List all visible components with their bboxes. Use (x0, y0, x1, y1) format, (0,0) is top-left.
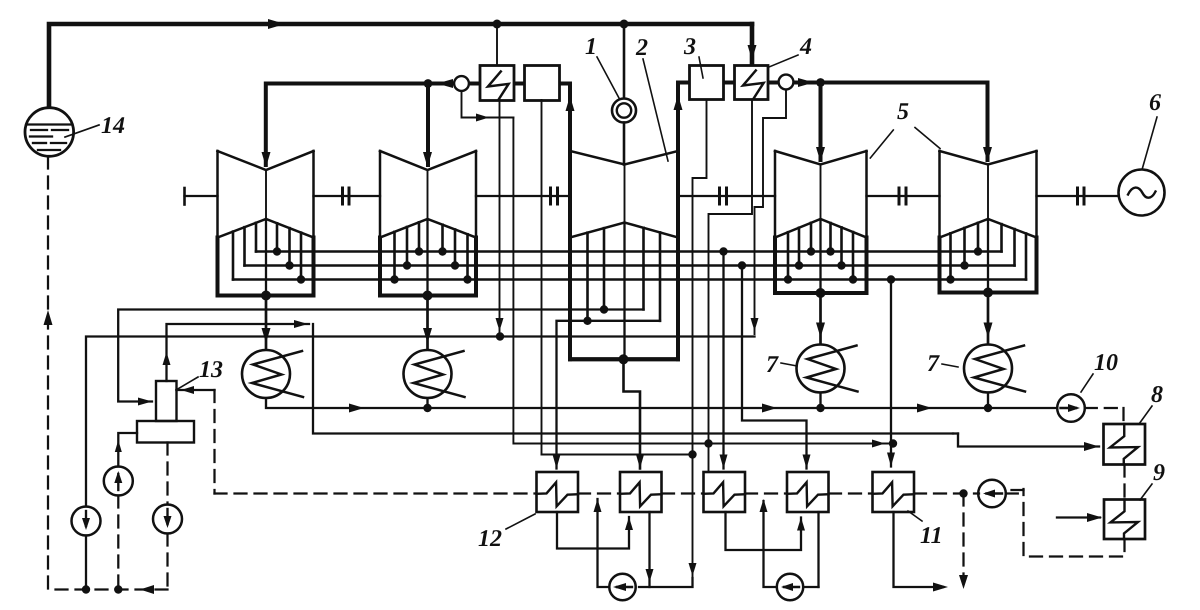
node tap header3 to heater 11 (887, 275, 895, 283)
condenser of T2 (404, 350, 452, 398)
wire reheater 4R drain (709, 100, 753, 473)
node main steam branch to throttle 1 (620, 20, 629, 29)
wire condensate into 13 from pump (118, 433, 137, 467)
ejector unit 13 lower vessel (137, 421, 194, 443)
ejector unit 13 upper vessel (156, 381, 177, 421)
wire T5 center exhaust to hood (987, 219, 989, 293)
label 2 leader (643, 59, 668, 161)
condensate pump (up) under 13 (104, 467, 133, 496)
wire T2 extraction drops with nodes (393, 232, 396, 280)
drain pump (left) of heaters 12 (609, 574, 635, 600)
wire heater 11 drain out (894, 512, 944, 587)
turbine T2 (LPC) outline (379, 151, 382, 238)
svg-text:8: 8 (1151, 382, 1163, 408)
wire T4 condenser drain (819, 393, 821, 409)
reheater 4L (square with zigzag) (480, 66, 514, 101)
svg-text:7: 7 (766, 352, 779, 378)
label 6 leader (1143, 117, 1158, 168)
svg-text:7: 7 (927, 351, 940, 377)
arrow on main steam line (268, 19, 285, 29)
wire steam into heater 9 (1057, 516, 1100, 518)
wire dashed suction of condensate pump (117, 496, 119, 590)
wire main steam into throttle valve 1 (623, 24, 626, 99)
svg-text:2: 2 (635, 35, 648, 61)
reheater 4L zigzag (488, 72, 509, 100)
wire dashed drain from 13 down (166, 443, 168, 505)
svg-text:6: 6 (1149, 90, 1161, 116)
wire line C (pot drains to heater 12-3) (513, 118, 889, 444)
condenser 7 of T5 (964, 345, 1012, 393)
node reheat line junction above T2 (424, 79, 433, 88)
coupling T2-T3 (549, 188, 552, 204)
wire turbine shaft (185, 195, 218, 197)
separator 3R (square) (690, 66, 724, 100)
heater 12-1 (LP heater) (537, 472, 579, 512)
turbine T1 (LPC) center line (265, 170, 267, 219)
wire drain pump 12 discharge into feed line (598, 499, 610, 587)
separator 3L (square) (525, 66, 560, 101)
moisture separator drain pot (small circle) left (454, 76, 469, 91)
turbine T4 (LPC, item 5) center line (820, 165, 822, 220)
wire extraction header 1 (256, 250, 1002, 253)
wire heater 12-1 drain cascade to 12-2 (557, 512, 629, 549)
label 7 leader (T5) (942, 364, 958, 367)
wire separator 3R drain (693, 100, 707, 581)
wire dashed from pump 10 to heater 8 (1085, 407, 1124, 409)
node T2 hood center (423, 291, 433, 301)
heater 9 (surface heater) (1104, 500, 1145, 540)
node T5 hood center (983, 288, 993, 298)
tank 14 water hatching (31, 129, 47, 131)
node main steam branch to reheater 4L (493, 20, 502, 29)
node reheater 4L drain on line B (496, 332, 504, 340)
wire dashed return riser to tank 14 (47, 157, 49, 590)
wire heater 12-3 drain cascade to 12-4 (726, 512, 802, 550)
wire T4 exhaust to condenser (819, 293, 822, 345)
pump of line B (down) (72, 507, 101, 536)
label 13 leader (176, 377, 198, 390)
wire dashed feedwater to 13 (177, 389, 215, 391)
wire dashed from heater 9 bottom to feed pump (1024, 489, 1125, 557)
wire hot reheat line right (to LPC turbines 5) (678, 83, 988, 161)
turbine T2 (LPC) exhaust hood (380, 238, 476, 296)
generator 6 sine symbol (1128, 188, 1156, 198)
moisture separator drain pot (small circle) right (779, 75, 794, 90)
label 12 leader (506, 514, 535, 529)
wire extraction header 2 (245, 264, 1015, 267)
node reheater 4R drain joins heater feed line (704, 439, 712, 447)
wire drain of separator pot 4R (755, 90, 787, 335)
turbine T3 (HPC, item 2) center line (624, 165, 626, 223)
turbine T5 (LPC, item 5) center line (987, 165, 989, 220)
label 14 leader (65, 125, 99, 137)
wire T3 extraction to line A2 (right drop) (659, 232, 662, 320)
wire 13-line down to heater feed line (313, 324, 953, 434)
condenser of T1 (242, 350, 290, 398)
heater 12-3 (704, 472, 746, 512)
svg-text:11: 11 (920, 523, 943, 549)
wire line B (reheater drains to pump) (86, 337, 755, 507)
wire condensate header from condensers to pump 10 (266, 398, 1057, 408)
turbine T2 (LPC) center line (427, 170, 429, 219)
label 1 leader (597, 57, 619, 98)
coupling T3-T4 (718, 188, 721, 204)
wire steam feed into turbine T4 (819, 83, 823, 161)
wire hot reheat line left (to LPC turbines 1,2) (443, 82, 570, 86)
wire cold reheat riser right (from HPC) (676, 83, 680, 360)
tank 14 water level line (27, 123, 73, 125)
svg-text:9: 9 (1153, 460, 1165, 486)
svg-text:3: 3 (683, 34, 696, 60)
wire T3 center exhaust down (623, 223, 625, 360)
wire steam feed into turbine T2 (426, 84, 430, 166)
svg-text:1: 1 (585, 34, 597, 60)
wire heater 11 steam feed (890, 280, 892, 467)
wire T4 extraction drops with nodes (787, 232, 790, 279)
label 9 leader (1140, 484, 1152, 500)
heater 12-2 (620, 472, 662, 512)
wire T4 center exhaust to hood (819, 219, 821, 293)
label 5 leaders (870, 130, 893, 158)
svg-text:10: 10 (1094, 350, 1118, 376)
wire T1 center exhaust to hood (265, 219, 267, 296)
wire T5 extraction drops right (header ends) (1000, 224, 1003, 251)
node line D joins drain collector (688, 450, 696, 458)
wire live steam into reheater 4L (496, 24, 498, 65)
wire dashed feedwater main line (215, 492, 537, 494)
wire T1 extraction drops (left, header starts) (232, 232, 235, 280)
turbine T1 (LPC) exhaust hood (218, 238, 314, 296)
wire heater 12-3 steam feed (722, 252, 724, 469)
node T1 hood center (261, 291, 271, 301)
wire T5 extraction drops left with nodes (949, 233, 952, 279)
wire drain of separator pot 4L (462, 91, 514, 118)
reheater 4R zigzag (743, 71, 764, 99)
wire separator 3L drain (541, 100, 543, 455)
wire heater 8 feed jog (953, 432, 958, 434)
wire T2 condenser drain (426, 398, 428, 408)
wire unit 13 outlet line (167, 324, 310, 381)
wire T5 condenser drain (987, 393, 989, 409)
heater 8 (surface heater) (1104, 424, 1146, 465)
shaft end mark (183, 188, 186, 205)
wire heater 12-4 steam feed (742, 266, 807, 469)
node line C joins heater 11 feed (889, 439, 897, 447)
turbine T5 (LPC, item 5) outline (938, 151, 941, 238)
T1 extraction taps right with nodes (276, 223, 279, 251)
label 10 leader (1081, 374, 1093, 392)
wire T3 extraction drop left 1 (586, 233, 589, 321)
wire T5 exhaust to condenser (987, 293, 990, 345)
throttle valve 1 (double circle) (612, 99, 636, 123)
wire reheater 4L drain down to line B (499, 100, 501, 333)
wire heater 12-4 drain to pump (817, 512, 819, 587)
wire extraction line A (T3 to unit 13) (118, 310, 643, 402)
node reheat line junction above T4 (816, 78, 825, 87)
feed pump (left arrow) on dashed main (978, 480, 1006, 508)
wire drain collector to pump 12 (639, 578, 693, 587)
wire heater 12-2 feed from HPC exhaust (624, 359, 641, 468)
label 4 leader (769, 55, 798, 67)
node tap header2 to heater 12-4 (738, 261, 746, 269)
wire T2 center exhaust to hood (426, 219, 428, 296)
wire dashed pump discharge to return line (166, 534, 168, 590)
wire T2 exhaust to condenser (426, 296, 429, 351)
wire dashed feed pump suction (1006, 492, 1024, 494)
wire extraction header 3 (233, 278, 1026, 281)
wire pump suction from heater 12-4 (803, 586, 818, 588)
turbine T4 (LPC, item 5) exhaust hood (775, 238, 867, 294)
svg-text:13: 13 (199, 357, 223, 383)
wire extraction line A2 (T3 to heater 12-1) (557, 321, 661, 469)
svg-text:12: 12 (478, 526, 502, 552)
condensate pump 10 (1057, 394, 1085, 422)
wire dashed heater 8 to heater 9 (1123, 465, 1125, 500)
node T4 hood center (816, 288, 826, 298)
label 8 leader (1139, 406, 1152, 424)
tank 14 (feed water tank) (25, 108, 74, 157)
turbine T5 (LPC, item 5) exhaust hood (940, 238, 1037, 293)
wire HPC exhaust bottom header (570, 357, 678, 361)
heater 11 (LP heater) (873, 472, 915, 512)
condenser 7 of T4 (797, 345, 845, 393)
wire line D (separator 3L drain east) (542, 454, 693, 456)
wire throttle valve 1 to HPC inlet (623, 123, 626, 165)
wire cold reheat riser left (from HPC) (568, 84, 572, 360)
heater 12-4 (787, 472, 829, 512)
wire dashed condensate return bottom (48, 588, 168, 590)
label 3 leader (699, 57, 703, 78)
wire pump B discharge to return (85, 536, 87, 590)
label 11 leader (908, 511, 922, 521)
wire drain pump discharge into feed line right (764, 501, 777, 587)
wire main steam line from tank 14 (49, 24, 752, 108)
wire T1 exhaust to condenser (265, 296, 268, 351)
wire heater 12-2 drain to pump (648, 512, 650, 587)
turbine T3 (HPC, item 2) exhaust hood (570, 238, 678, 360)
pump (down) under 13 right (153, 505, 182, 534)
generator 6 (1119, 170, 1165, 216)
coupling T5-generator (1076, 188, 1079, 204)
coupling T1-T2 (341, 188, 344, 204)
wire T3 extraction to line A (right drop) (642, 228, 645, 310)
wire dashed blowdown branch (962, 494, 964, 585)
wire heating steam into heater 8 (958, 434, 1099, 447)
coupling T4-T5 (898, 188, 901, 204)
wire T3 extraction drop left 2 (603, 228, 606, 309)
svg-text:14: 14 (101, 113, 125, 139)
reheater 4R (square with zigzag) (735, 66, 769, 100)
svg-text:5: 5 (897, 99, 909, 125)
node tap header1 to heater 12-3 (719, 247, 727, 255)
svg-text:4: 4 (799, 34, 812, 60)
label 7 leader (T4) (781, 363, 797, 366)
drain pump (left) of heaters 11/12-4 (777, 574, 803, 600)
turbine T4 (LPC, item 5) outline (774, 151, 777, 238)
turbine T3 (HPC, item 2) outline (569, 151, 572, 238)
turbine T1 (LPC) outline (216, 151, 219, 238)
wire main steam drop into reheater 4R (750, 24, 755, 64)
node HPC exhaust center (619, 354, 629, 364)
node dashed drain branch (959, 489, 967, 497)
